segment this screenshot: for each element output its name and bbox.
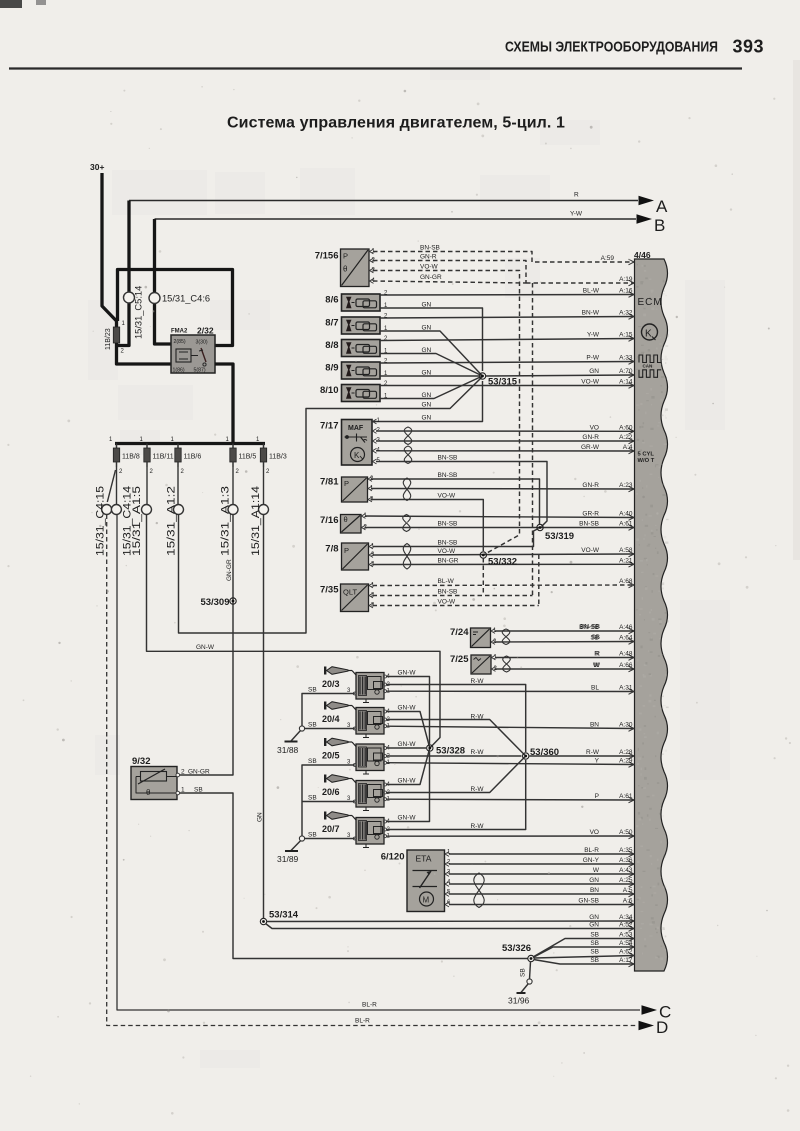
svg-text:C: C — [659, 1003, 671, 1022]
svg-text:R-W: R-W — [471, 714, 485, 721]
svg-text:A:23: A:23 — [619, 482, 633, 489]
svg-text:Y-W: Y-W — [587, 332, 600, 339]
svg-text:R: R — [595, 651, 600, 658]
svg-text:11B/6: 11B/6 — [184, 454, 202, 461]
svg-text:A:19: A:19 — [619, 276, 633, 283]
svg-text:VO-W: VO-W — [438, 493, 457, 500]
svg-text:P: P — [595, 793, 599, 800]
svg-text:BN-SB: BN-SB — [438, 589, 458, 596]
svg-text:A: A — [656, 197, 668, 216]
svg-text:VO-W: VO-W — [581, 379, 600, 386]
svg-text:GN: GN — [257, 812, 264, 822]
svg-text:θ: θ — [343, 265, 348, 274]
svg-text:1(86): 1(86) — [173, 368, 185, 374]
svg-text:P: P — [343, 252, 348, 261]
svg-text:GN-SB: GN-SB — [578, 898, 599, 905]
svg-text:A:50: A:50 — [619, 829, 633, 836]
svg-text:MAF: MAF — [348, 425, 364, 432]
svg-text:20/5: 20/5 — [322, 751, 340, 761]
svg-text:A:68: A:68 — [619, 578, 633, 585]
svg-text:GN-GR: GN-GR — [226, 559, 233, 581]
svg-text:A:62: A:62 — [619, 949, 633, 956]
svg-text:31/96: 31/96 — [508, 996, 530, 1006]
svg-text:11B/23: 11B/23 — [105, 328, 112, 350]
svg-text:A:46: A:46 — [619, 624, 633, 631]
svg-text:GN: GN — [589, 914, 599, 921]
svg-text:A:34: A:34 — [619, 914, 633, 921]
svg-text:A:35: A:35 — [619, 847, 633, 854]
svg-text:A:48: A:48 — [619, 651, 633, 658]
svg-text:7/35: 7/35 — [320, 585, 339, 596]
svg-text:A:32: A:32 — [619, 310, 633, 317]
svg-text:20/4: 20/4 — [322, 714, 340, 724]
svg-text:A:16: A:16 — [619, 288, 633, 295]
svg-text:GN: GN — [422, 370, 432, 377]
svg-text:GN-R: GN-R — [582, 434, 599, 441]
svg-text:A:61: A:61 — [619, 521, 633, 528]
svg-text:R-W: R-W — [586, 749, 600, 756]
svg-text:11B/8: 11B/8 — [122, 454, 140, 461]
svg-text:A:15: A:15 — [619, 332, 633, 339]
svg-text:31/88: 31/88 — [277, 745, 299, 755]
svg-text:СХЕМЫ ЭЛЕКТРООБОРУДОВАНИЯ: СХЕМЫ ЭЛЕКТРООБОРУДОВАНИЯ — [505, 40, 718, 56]
svg-text:A:40: A:40 — [619, 511, 633, 518]
svg-text:30+: 30+ — [90, 162, 104, 172]
svg-text:GN-Y: GN-Y — [583, 857, 600, 864]
svg-text:A:22: A:22 — [619, 434, 633, 441]
svg-text:BN-SB: BN-SB — [438, 540, 458, 547]
svg-text:SB: SB — [308, 795, 317, 802]
svg-text:GR-R: GR-R — [582, 511, 599, 518]
svg-text:GN-W: GN-W — [398, 741, 417, 748]
svg-text:15/31_A1:14: 15/31_A1:14 — [250, 486, 262, 556]
svg-text:7/24: 7/24 — [450, 627, 469, 638]
svg-text:8/6: 8/6 — [325, 295, 338, 306]
svg-text:4/46: 4/46 — [634, 250, 651, 260]
svg-text:GN-W: GN-W — [398, 778, 417, 785]
svg-text:R-W: R-W — [471, 749, 485, 756]
svg-text:A:25: A:25 — [619, 877, 633, 884]
svg-text:53/332: 53/332 — [488, 557, 517, 568]
svg-text:SB: SB — [591, 634, 600, 641]
svg-text:5(87): 5(87) — [194, 368, 206, 374]
svg-text:W: W — [594, 662, 601, 669]
svg-text:3(30): 3(30) — [196, 340, 208, 346]
svg-text:7/8: 7/8 — [325, 544, 338, 555]
svg-text:A:60: A:60 — [619, 424, 633, 431]
svg-text:A:52: A:52 — [619, 922, 633, 929]
svg-text:15/31_A1:5: 15/31_A1:5 — [131, 486, 143, 556]
svg-text:P: P — [344, 479, 349, 488]
svg-text:SB: SB — [590, 957, 599, 964]
svg-text:GN-W: GN-W — [398, 815, 417, 822]
svg-text:7/156: 7/156 — [315, 251, 339, 262]
svg-text:VO-W: VO-W — [438, 599, 457, 606]
svg-text:7/17: 7/17 — [320, 421, 339, 432]
svg-text:A:30: A:30 — [619, 722, 633, 729]
svg-text:6/120: 6/120 — [381, 852, 405, 863]
svg-text:GN: GN — [422, 347, 432, 354]
svg-text:2/32: 2/32 — [197, 326, 214, 336]
svg-text:GN: GN — [422, 402, 432, 409]
svg-text:VO: VO — [590, 829, 599, 836]
svg-text:BN-SB: BN-SB — [438, 455, 458, 462]
svg-text:BN-SB: BN-SB — [579, 521, 599, 528]
svg-text:VO-W: VO-W — [438, 548, 457, 555]
svg-text:15/31_C5:14: 15/31_C5:14 — [134, 286, 144, 339]
svg-text:53/328: 53/328 — [436, 746, 465, 757]
svg-text:SB: SB — [590, 940, 599, 947]
svg-text:R: R — [574, 192, 579, 199]
svg-text:A:43: A:43 — [619, 867, 633, 874]
svg-text:11B/11: 11B/11 — [153, 454, 174, 461]
svg-text:11B/3: 11B/3 — [269, 454, 287, 461]
svg-text:Y-W: Y-W — [570, 211, 583, 218]
svg-text:GN: GN — [422, 392, 432, 399]
svg-text:GN-W: GN-W — [398, 670, 417, 677]
svg-text:A:64: A:64 — [619, 635, 633, 642]
svg-text:A:4: A:4 — [623, 444, 633, 451]
svg-text:SB: SB — [308, 722, 317, 729]
svg-text:A:61: A:61 — [619, 793, 633, 800]
svg-text:GR-W: GR-W — [581, 444, 600, 451]
svg-text:θ: θ — [344, 515, 348, 524]
svg-text:8/10: 8/10 — [320, 385, 339, 396]
svg-text:SB: SB — [308, 832, 317, 839]
svg-text:FMA2: FMA2 — [171, 329, 188, 335]
svg-text:A:31: A:31 — [619, 685, 633, 692]
svg-text:R-W: R-W — [471, 823, 485, 830]
svg-text:ECM: ECM — [638, 297, 663, 308]
svg-text:BL-R: BL-R — [362, 1002, 377, 1009]
svg-text:8/9: 8/9 — [325, 363, 338, 374]
svg-text:P: P — [344, 546, 349, 555]
svg-text:GN-R: GN-R — [582, 482, 599, 489]
svg-text:5 CYL: 5 CYL — [638, 452, 655, 458]
svg-text:SB: SB — [520, 968, 527, 977]
svg-text:GN: GN — [422, 325, 432, 332]
svg-text:A:66: A:66 — [619, 662, 633, 669]
svg-text:A:14: A:14 — [619, 379, 633, 386]
svg-text:A:53: A:53 — [619, 932, 633, 939]
svg-text:Y: Y — [595, 758, 600, 765]
svg-text:A:54: A:54 — [619, 940, 633, 947]
svg-text:7/16: 7/16 — [320, 515, 339, 526]
svg-text:R-W: R-W — [471, 786, 485, 793]
svg-text:GN-W: GN-W — [398, 705, 417, 712]
svg-text:31/89: 31/89 — [277, 854, 299, 864]
svg-text:A:36: A:36 — [619, 857, 633, 864]
svg-text:GN-R: GN-R — [420, 254, 437, 261]
svg-text:393: 393 — [732, 37, 764, 57]
svg-text:7/81: 7/81 — [320, 477, 339, 488]
svg-text:BL-W: BL-W — [438, 578, 455, 585]
svg-text:A:21: A:21 — [619, 557, 633, 564]
svg-text:GN: GN — [589, 877, 599, 884]
svg-text:ETA: ETA — [416, 854, 432, 864]
svg-text:GN: GN — [422, 302, 432, 309]
svg-text:20/3: 20/3 — [322, 679, 340, 689]
svg-text:20/6: 20/6 — [322, 787, 340, 797]
svg-text:GN: GN — [589, 922, 599, 929]
svg-text:8/7: 8/7 — [325, 318, 338, 329]
svg-text:A:33: A:33 — [619, 355, 633, 362]
svg-text:A:28: A:28 — [619, 749, 633, 756]
svg-text:BN: BN — [590, 887, 599, 894]
svg-text:15/31_A1:2: 15/31_A1:2 — [166, 486, 178, 556]
svg-text:53/314: 53/314 — [269, 910, 299, 921]
svg-text:BN-SB: BN-SB — [438, 521, 458, 528]
svg-text:53/326: 53/326 — [502, 943, 531, 954]
svg-text:GN-GR: GN-GR — [420, 274, 442, 281]
svg-text:VO: VO — [590, 424, 599, 431]
svg-text:A:58: A:58 — [619, 547, 633, 554]
svg-text:GN-W: GN-W — [196, 644, 215, 651]
svg-text:SB: SB — [308, 687, 317, 694]
svg-text:CAN: CAN — [643, 364, 653, 369]
svg-text:GN: GN — [589, 368, 599, 375]
svg-text:53/315: 53/315 — [488, 377, 518, 388]
svg-text:8/8: 8/8 — [325, 340, 338, 351]
svg-text:QLT: QLT — [343, 588, 357, 597]
svg-text:15/31_C4:15: 15/31_C4:15 — [95, 486, 107, 556]
svg-text:SB: SB — [308, 758, 317, 765]
svg-text:A:29: A:29 — [619, 758, 633, 765]
svg-text:A:17: A:17 — [619, 957, 633, 964]
svg-text:A:6: A:6 — [623, 898, 633, 905]
svg-text:BN-W: BN-W — [582, 310, 600, 317]
svg-text:11B/5: 11B/5 — [239, 454, 257, 461]
svg-text:20/7: 20/7 — [322, 824, 340, 834]
svg-text:SB: SB — [590, 949, 599, 956]
svg-text:M: M — [423, 896, 430, 905]
svg-text:BN-SB: BN-SB — [420, 245, 440, 252]
svg-text:W: W — [593, 867, 600, 874]
svg-text:53/309: 53/309 — [200, 597, 229, 608]
svg-text:BL-W: BL-W — [583, 288, 600, 295]
svg-text:VO-W: VO-W — [581, 547, 600, 554]
svg-text:W/O T: W/O T — [638, 458, 655, 464]
svg-text:A:70: A:70 — [619, 368, 633, 375]
svg-text:GN: GN — [422, 415, 432, 422]
svg-text:P-W: P-W — [586, 355, 600, 362]
svg-text:K: K — [645, 329, 652, 340]
svg-text:R-W: R-W — [471, 678, 485, 685]
svg-text:VO-W: VO-W — [420, 264, 439, 271]
svg-text:2(85): 2(85) — [174, 339, 186, 345]
svg-text:BN-GR: BN-GR — [438, 558, 459, 565]
svg-text:Система управления двигателем,: Система управления двигателем, 5-цил. 1 — [227, 115, 565, 132]
svg-text:A:59: A:59 — [601, 255, 615, 262]
svg-text:B: B — [654, 216, 665, 235]
svg-text:9/32: 9/32 — [132, 756, 151, 767]
svg-text:BL-R: BL-R — [355, 1018, 370, 1025]
svg-text:15/31_C4:6: 15/31_C4:6 — [162, 294, 210, 304]
svg-text:BL-R: BL-R — [584, 847, 599, 854]
svg-text:A:5: A:5 — [623, 887, 633, 894]
svg-text:SB: SB — [590, 932, 599, 939]
svg-text:BN-SB: BN-SB — [580, 624, 600, 631]
svg-text:BN-SB: BN-SB — [438, 472, 458, 479]
svg-text:K: K — [354, 451, 360, 460]
svg-text:53/319: 53/319 — [545, 531, 574, 542]
svg-text:BL: BL — [591, 685, 599, 692]
svg-text:15/31_A1:3: 15/31_A1:3 — [220, 486, 232, 556]
svg-text:7/25: 7/25 — [450, 654, 469, 665]
